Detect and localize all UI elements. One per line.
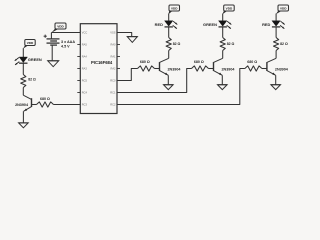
resistor R6 680 ohm (horizontal) bbox=[192, 66, 209, 71]
wire VDD to LED D2 anode bbox=[168, 14, 170, 21]
svg-text:RC4: RC4 bbox=[82, 91, 88, 95]
svg-text:82 Ω: 82 Ω bbox=[173, 42, 181, 46]
wire resistor R2 to IC pin RC3 bbox=[54, 104, 81, 106]
svg-text:VDD: VDD bbox=[280, 7, 287, 11]
transistor Q3 2N3904 bbox=[214, 58, 223, 75]
resistor R5 82 ohm (vertical) bbox=[220, 38, 225, 51]
svg-text:RED: RED bbox=[155, 22, 163, 27]
resistor R3 82 ohm (vertical) bbox=[166, 38, 171, 51]
ground (Q4 emitter) bbox=[271, 85, 281, 90]
svg-text:82 Ω: 82 Ω bbox=[28, 78, 36, 82]
svg-text:VDD: VDD bbox=[27, 41, 34, 45]
transistor Q4 2N3904 bbox=[267, 58, 276, 75]
wire resistor R6 to IC (riser and feed) bbox=[117, 69, 192, 93]
wire transistor Q4 base to resistor R8 bbox=[262, 68, 267, 70]
svg-text:VSS: VSS bbox=[110, 31, 115, 35]
transistor Q1 2N3904 (left, mirrored) bbox=[23, 95, 31, 111]
power flag VDD (left LED column) bbox=[23, 40, 35, 49]
svg-text:680 Ω: 680 Ω bbox=[194, 60, 204, 64]
ground (Q2 emitter) bbox=[164, 85, 174, 90]
LED D3 GREEN bbox=[219, 21, 227, 27]
svg-text:VCC: VCC bbox=[82, 31, 88, 35]
wire transistor Q2 emitter to ground bbox=[167, 75, 169, 84]
wire resistor R7 to transistor Q4 collector bbox=[275, 51, 277, 59]
svg-text:RC2: RC2 bbox=[110, 103, 116, 107]
wire VDD to LED D4 anode bbox=[275, 14, 277, 21]
wire battery stem top bbox=[50, 33, 52, 39]
wire resistor R5 to transistor Q3 collector bbox=[222, 51, 224, 59]
svg-text:VDD: VDD bbox=[171, 7, 178, 11]
resistor R4 680 ohm (horizontal) bbox=[138, 66, 155, 71]
LED D1 light arrows bbox=[15, 58, 20, 65]
svg-text:RA3: RA3 bbox=[82, 67, 88, 71]
wire LED D3 cathode to resistor R5 bbox=[222, 27, 224, 38]
svg-text:RA0: RA0 bbox=[110, 43, 116, 47]
IC U1 PIC16F684 body bbox=[80, 24, 117, 114]
resistor R1 82 ohm (vertical) bbox=[21, 75, 26, 88]
ground (IC VSS) bbox=[127, 37, 137, 43]
svg-text:680 Ω: 680 Ω bbox=[247, 60, 257, 64]
LED D2 RED bbox=[165, 21, 173, 27]
LED D1 GREEN (left) bbox=[19, 57, 27, 63]
svg-text:RA1: RA1 bbox=[110, 55, 116, 59]
svg-text:RA2: RA2 bbox=[110, 67, 116, 71]
wire transistor Q1 base to resistor R2 bbox=[32, 104, 37, 106]
wire resistor R1 to transistor Q1 collector bbox=[22, 88, 24, 96]
wire resistor R8 to IC (riser and feed) bbox=[117, 69, 245, 105]
svg-text:GREEN: GREEN bbox=[28, 57, 42, 62]
svg-text:82 Ω: 82 Ω bbox=[280, 42, 288, 46]
svg-text:2N3904: 2N3904 bbox=[275, 67, 289, 71]
resistor R2 680 ohm (horizontal) bbox=[37, 102, 54, 107]
svg-text:PIC16F684: PIC16F684 bbox=[91, 60, 113, 65]
svg-text:680 Ω: 680 Ω bbox=[140, 60, 150, 64]
svg-text:VDD: VDD bbox=[226, 7, 233, 11]
wire battery positive to IC pin VCC bbox=[51, 32, 80, 34]
svg-text:RC5: RC5 bbox=[82, 79, 88, 83]
power flag VDD (RED LED column x168) bbox=[168, 5, 179, 14]
svg-text:RC0: RC0 bbox=[110, 79, 116, 83]
resistor R7 82 ohm (vertical) bbox=[274, 38, 279, 51]
wire transistor Q4 emitter to ground bbox=[275, 75, 277, 84]
LED D4 RED bbox=[272, 21, 280, 27]
ground (Q1 emitter) bbox=[19, 123, 29, 128]
wire resistor R4 to IC (riser and feed) bbox=[117, 69, 138, 81]
ground (battery) bbox=[48, 61, 59, 67]
wire transistor Q1 emitter to ground bbox=[22, 111, 24, 123]
LED D2 light arrows bbox=[173, 21, 178, 28]
wire transistor Q3 emitter to ground bbox=[221, 75, 223, 84]
svg-text:RED: RED bbox=[262, 22, 270, 27]
wire resistor R3 to transistor Q2 collector bbox=[168, 51, 170, 59]
wire IC pin VSS to ground bbox=[117, 33, 132, 37]
svg-text:2N3904: 2N3904 bbox=[15, 103, 29, 107]
svg-text:RA4: RA4 bbox=[82, 55, 88, 59]
svg-text:2N3904: 2N3904 bbox=[222, 67, 236, 71]
svg-text:82 Ω: 82 Ω bbox=[227, 42, 235, 46]
wire VDD to LED D1 anode bbox=[22, 48, 24, 57]
svg-text:RC1: RC1 bbox=[110, 91, 116, 95]
power flag VDD (GREEN LED column x222) bbox=[222, 5, 234, 14]
svg-text:RC3: RC3 bbox=[82, 103, 88, 107]
svg-text:VDD: VDD bbox=[57, 25, 64, 29]
ground (Q3 emitter) bbox=[218, 85, 228, 90]
wire transistor Q2 base to resistor R4 bbox=[155, 68, 160, 70]
wire LED D1 cathode to resistor R1 bbox=[22, 63, 24, 74]
svg-text:680 Ω: 680 Ω bbox=[40, 97, 50, 101]
IC U1 right pin labels VSS RA0 RA1 RA2 RC0 RC1 RC2 bbox=[110, 31, 116, 107]
resistor R8 680 ohm (horizontal) bbox=[245, 66, 262, 71]
transistor Q2 2N3904 bbox=[160, 58, 169, 75]
LED D3 light arrows bbox=[227, 21, 232, 28]
svg-text:GREEN: GREEN bbox=[203, 22, 217, 27]
wire transistor Q3 base to resistor R6 bbox=[209, 68, 214, 70]
svg-text:4.5 V: 4.5 V bbox=[61, 44, 70, 48]
wire LED D2 cathode to resistor R3 bbox=[168, 27, 170, 38]
svg-text:RA5: RA5 bbox=[82, 43, 88, 47]
battery plus sign bbox=[44, 35, 47, 38]
power flag VDD (RED LED column x276) bbox=[276, 5, 289, 14]
IC U1 left pin stubs bbox=[77, 33, 80, 105]
svg-text:2N3904: 2N3904 bbox=[168, 67, 182, 71]
power flag VDD (battery) bbox=[51, 23, 66, 33]
LED D4 light arrows bbox=[280, 21, 285, 28]
battery BT1 3 x AAA 4.5 V bbox=[47, 39, 60, 45]
wire VDD to LED D3 anode bbox=[222, 14, 224, 21]
IC U1 left pin labels VCC RA5 RA4 RA3 RC5 RC4 RC3 bbox=[82, 31, 88, 107]
wire LED D4 cathode to resistor R7 bbox=[275, 27, 277, 38]
IC U1 right pin stubs bbox=[117, 33, 120, 105]
wire battery negative to ground bbox=[51, 45, 53, 61]
